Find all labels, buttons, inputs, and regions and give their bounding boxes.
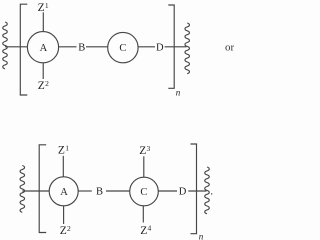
wire Z4 bond (bottom) <box>142 206 144 223</box>
open bracket (top structure) <box>20 4 27 95</box>
svg-text:A: A <box>40 43 48 54</box>
wire left bond into A (top) <box>5 46 27 48</box>
close bracket (bottom structure) <box>191 144 197 234</box>
svg-text:,: , <box>211 187 213 196</box>
wire left bond into A (bottom) <box>22 190 49 192</box>
node circle C (top) <box>108 32 138 62</box>
svg-text:Z: Z <box>38 2 45 14</box>
svg-text:D: D <box>156 42 164 53</box>
svg-text:Z: Z <box>140 225 147 237</box>
open bracket (bottom structure) <box>39 145 46 233</box>
svg-text:3: 3 <box>147 144 151 153</box>
svg-text:B: B <box>78 42 85 53</box>
svg-text:Z: Z <box>58 145 65 157</box>
svg-text:n: n <box>176 87 181 97</box>
svg-text:Z: Z <box>60 225 67 237</box>
wire A-B bond (bottom) <box>78 190 92 192</box>
svg-text:A: A <box>60 187 68 198</box>
wire D to wavy (bottom) <box>188 190 206 192</box>
node circle C (bottom) <box>130 177 159 206</box>
svg-text:1: 1 <box>45 1 49 10</box>
svg-text:B: B <box>96 187 103 198</box>
wire wavy bond left (top structure) <box>3 22 8 69</box>
svg-text:2: 2 <box>45 79 49 88</box>
node circle A (bottom) <box>49 177 78 206</box>
wire wavy bond right (bottom structure) <box>205 167 210 214</box>
svg-text:or: or <box>225 41 234 53</box>
svg-text:4: 4 <box>148 224 152 233</box>
wire Z3 bond (bottom) <box>143 156 145 177</box>
close bracket (top structure) <box>168 5 174 88</box>
wire wavy bond right (top structure) <box>185 23 190 74</box>
wire B-C bond (top) <box>86 46 108 48</box>
svg-text:Z: Z <box>139 145 146 157</box>
wire A-B bond (top) <box>59 46 77 48</box>
wire C-D bond (top) <box>138 46 155 48</box>
wire Z2 bond (bottom) <box>63 206 65 224</box>
svg-text:1: 1 <box>65 143 69 152</box>
svg-text:C: C <box>119 43 126 54</box>
svg-text:C: C <box>140 187 147 198</box>
wire D to wavy (top) <box>165 46 187 48</box>
wire Z2 bond (top) <box>42 63 44 79</box>
wire B-C bond (bottom) <box>106 190 130 192</box>
node circle A (top) <box>27 32 58 63</box>
svg-text:n: n <box>199 232 204 240</box>
wire wavy bond left (bottom structure) <box>20 166 25 213</box>
svg-text:D: D <box>179 187 187 198</box>
wire Z1 bond (top) <box>42 12 44 31</box>
svg-text:Z: Z <box>38 80 45 92</box>
wire C-D bond (bottom) <box>158 190 177 192</box>
svg-text:2: 2 <box>67 224 71 233</box>
wire Z1 bond (bottom) <box>62 156 64 177</box>
